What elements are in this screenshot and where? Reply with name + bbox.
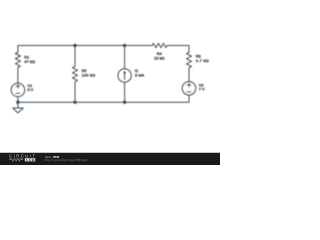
wire bottom rail: [18, 95, 189, 102]
svg-text:http://circuitlab.com/c/65bqq4: http://circuitlab.com/c/65bqq4: [45, 158, 88, 162]
node junction bottom ground: [16, 101, 19, 104]
svg-text:47 kΩ: 47 kΩ: [24, 59, 35, 64]
current source I1 leads: [124, 46, 126, 103]
resistor R2: [72, 46, 77, 103]
node junction bottom I1: [123, 101, 126, 104]
wire V1 to bottom node: [17, 97, 19, 108]
voltage source V1: [11, 83, 25, 97]
wire top rail left segment: [18, 46, 152, 53]
footer bar: [0, 153, 220, 165]
svg-text:7 V: 7 V: [199, 86, 205, 91]
resistor R1: [15, 52, 20, 67]
current source I1: [118, 69, 131, 82]
node junction bottom R2: [73, 101, 76, 104]
svg-text:4.7 kΩ: 4.7 kΩ: [196, 58, 209, 63]
node junction top R2: [73, 44, 76, 47]
svg-text:3 V: 3 V: [27, 87, 33, 92]
node junction top I1: [123, 44, 126, 47]
ground: [13, 108, 24, 113]
svg-text:5 mA: 5 mA: [135, 73, 144, 78]
logo resistor zigzag: [9, 158, 23, 161]
svg-text:22 kΩ: 22 kΩ: [154, 56, 164, 61]
wire R1 to V1: [17, 68, 19, 84]
logo LAB box: [25, 158, 35, 161]
wire R3 to V2: [188, 68, 190, 82]
svg-text:LAB: LAB: [26, 158, 34, 162]
wire top rail right segment: [167, 46, 189, 53]
resistor R3: [186, 52, 191, 67]
svg-text:100 kΩ: 100 kΩ: [82, 73, 96, 78]
voltage source V2: [182, 82, 196, 96]
resistor R4: [152, 43, 167, 47]
